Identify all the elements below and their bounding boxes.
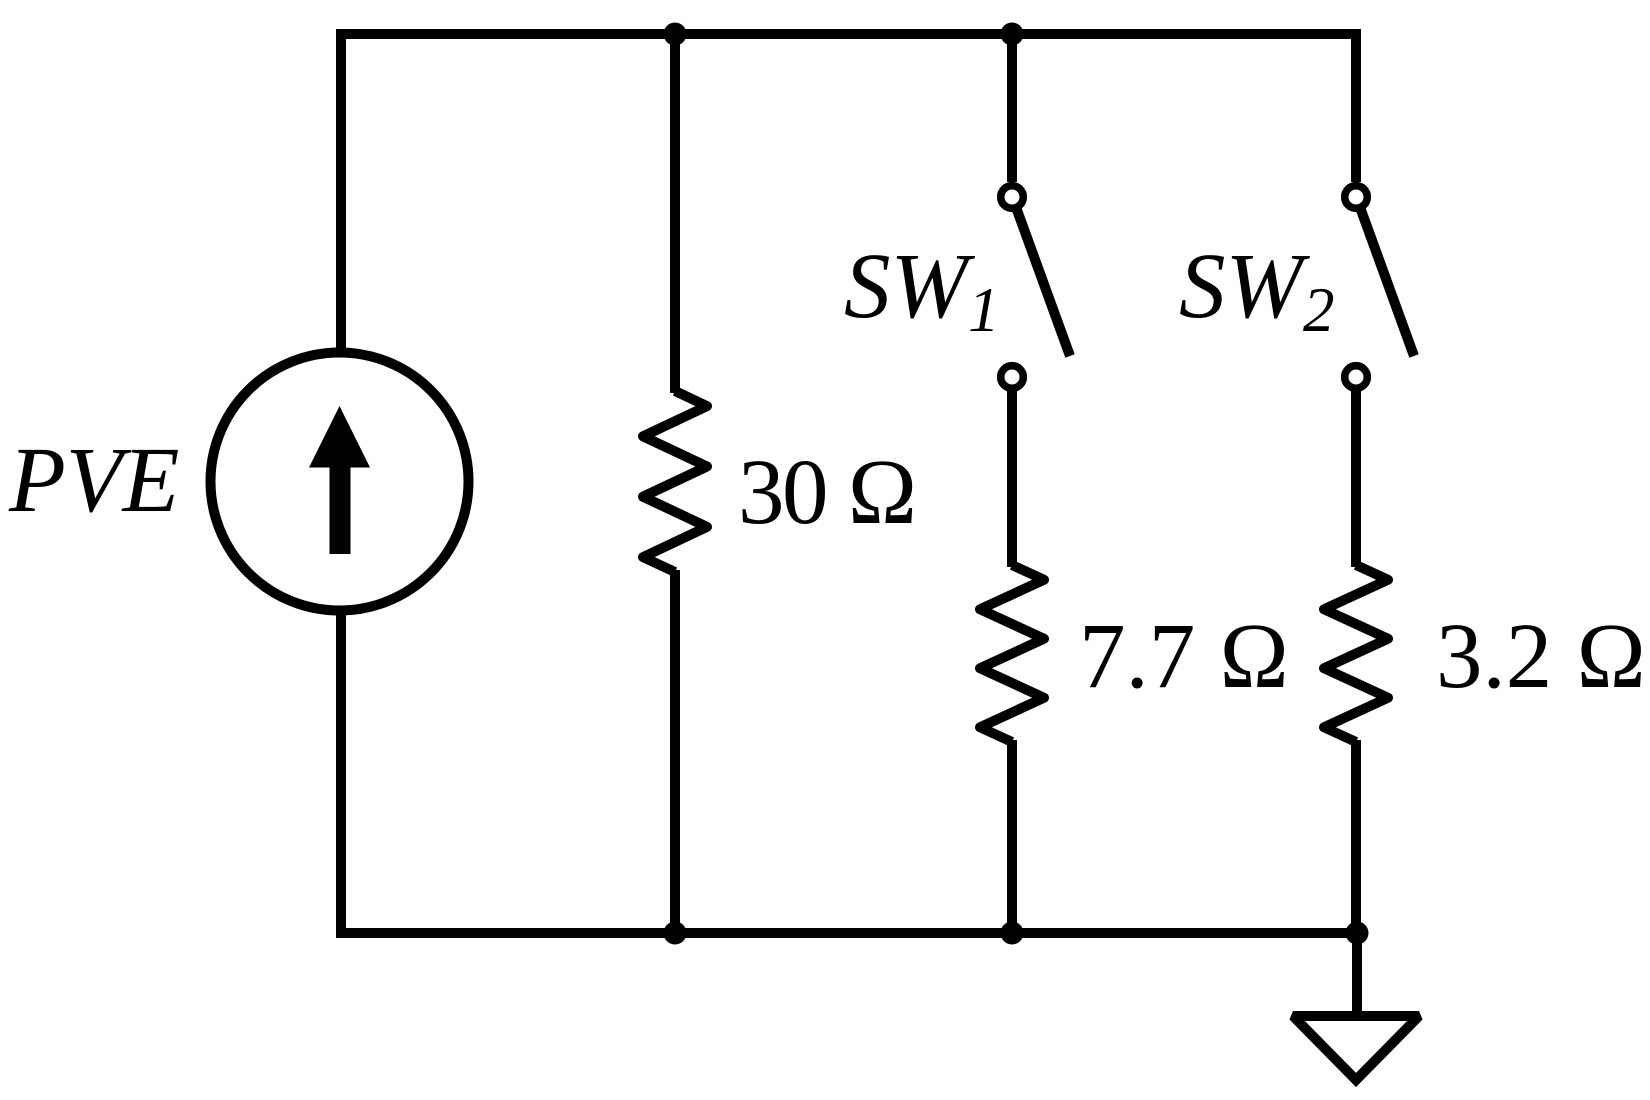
wire right vertical (rail to SW2)	[1351, 34, 1361, 182]
wire 30-ohm branch top	[670, 34, 680, 393]
wire SW2 to resistor	[1351, 391, 1361, 567]
svg-text:PVE: PVE	[8, 429, 179, 532]
junction dot top 30-ohm node	[664, 23, 687, 46]
wire left vertical (source top to rail)	[336, 34, 346, 350]
wire SW1 to resistor	[1007, 391, 1017, 567]
junction dot top SW1 node	[1001, 23, 1024, 46]
resistor R 3.2 ohm zigzag	[1324, 565, 1388, 742]
current source arrow	[309, 406, 370, 554]
switch SW1 bottom contact circle	[1001, 366, 1024, 389]
switch SW2 arm	[1361, 210, 1414, 356]
resistor R 7.7 ohm zigzag	[980, 565, 1044, 742]
svg-text:30 Ω: 30 Ω	[738, 441, 916, 544]
wire SW1 branch top	[1007, 34, 1017, 182]
wire 3.2 ohm to bottom rail	[1351, 740, 1361, 938]
switch SW1 arm	[1017, 210, 1070, 356]
svg-text:7.7 Ω: 7.7 Ω	[1079, 605, 1290, 708]
wire 30-ohm branch bottom	[670, 570, 680, 938]
wire source bottom to rail	[336, 613, 346, 938]
svg-text:3.2 Ω: 3.2 Ω	[1436, 605, 1647, 708]
junction dot bottom SW1 node	[1001, 922, 1024, 945]
junction dot bottom 30-ohm node	[664, 922, 687, 945]
wire 7.7 ohm to bottom rail	[1007, 740, 1017, 938]
switch SW2 top contact circle	[1345, 186, 1368, 209]
wire top rail	[336, 29, 1361, 39]
ground symbol triangle	[1293, 1016, 1419, 1080]
switch SW2 bottom contact circle	[1345, 366, 1368, 389]
junction dot bottom ground node	[1346, 922, 1369, 945]
resistor R 30 ohm zigzag	[643, 391, 707, 572]
current source PVE circle	[211, 353, 469, 611]
switch SW1 top contact circle	[1001, 186, 1024, 209]
wire bottom rail	[336, 928, 1362, 938]
wire ground stub	[1352, 933, 1362, 1016]
